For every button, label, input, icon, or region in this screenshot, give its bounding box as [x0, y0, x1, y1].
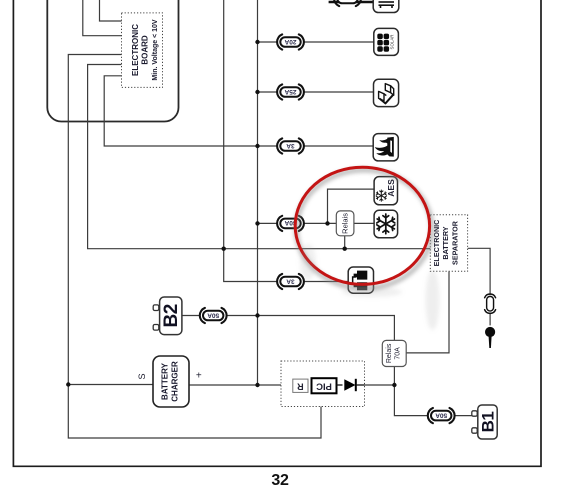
svg-text:50A: 50A: [435, 411, 447, 418]
svg-text:SOLAR: SOLAR: [390, 35, 395, 50]
svg-text:AES: AES: [386, 179, 396, 197]
svg-text:Min. Voltage < 10V: Min. Voltage < 10V: [152, 19, 159, 80]
svg-text:R: R: [297, 381, 304, 391]
svg-text:25A: 25A: [284, 88, 296, 95]
svg-text:Relais: Relais: [386, 343, 393, 363]
svg-text:50A: 50A: [207, 311, 219, 318]
svg-text:SEPARATOR: SEPARATOR: [451, 220, 460, 265]
svg-text:PIC: PIC: [316, 380, 332, 391]
svg-text:B2: B2: [161, 304, 182, 327]
svg-text:S: S: [137, 373, 147, 379]
svg-text:ELECTRONIC: ELECTRONIC: [131, 24, 140, 76]
svg-text:3A: 3A: [286, 142, 295, 149]
svg-text:32: 32: [271, 472, 289, 489]
svg-text:Relais: Relais: [341, 213, 350, 234]
svg-text:BATTERY: BATTERY: [441, 226, 450, 259]
svg-text:20A: 20A: [284, 38, 296, 45]
svg-text:+: +: [196, 371, 202, 382]
svg-text:70A: 70A: [395, 347, 402, 360]
svg-text:BATTERY: BATTERY: [161, 362, 170, 400]
svg-text:B1: B1: [479, 412, 498, 433]
svg-text:3A: 3A: [286, 277, 295, 284]
svg-text:CHARGER: CHARGER: [171, 361, 180, 402]
svg-text:BOARD: BOARD: [140, 35, 149, 65]
